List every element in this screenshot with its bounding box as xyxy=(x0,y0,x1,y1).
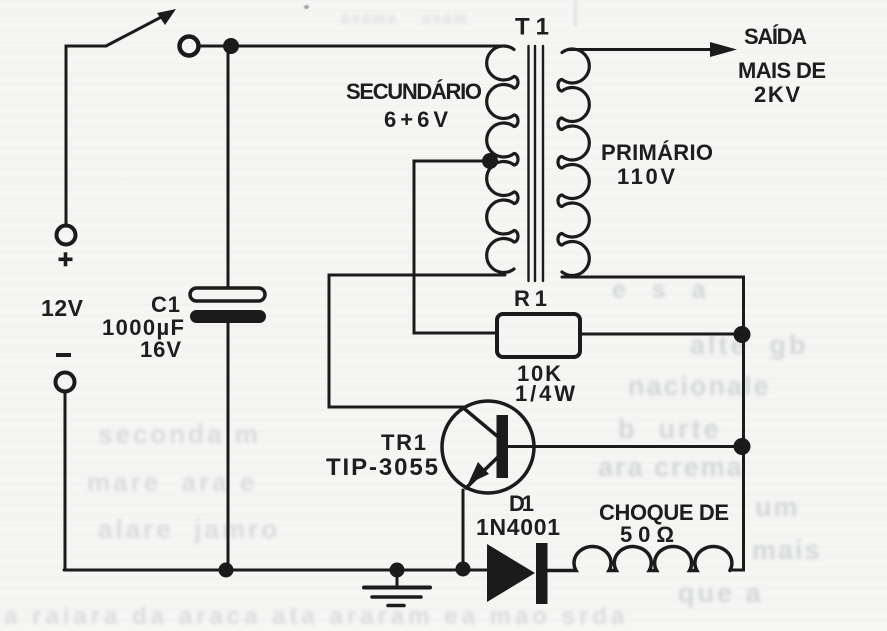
svg-text:1N4001: 1N4001 xyxy=(476,514,561,540)
svg-text:SECUNDÁRIO: SECUNDÁRIO xyxy=(346,79,483,104)
svg-text:SAÍDA: SAÍDA xyxy=(744,24,808,49)
svg-text:TIP-3055: TIP-3055 xyxy=(326,454,439,481)
svg-text:12V: 12V xyxy=(41,295,84,321)
svg-text:6+6V: 6+6V xyxy=(384,107,449,132)
svg-text:50Ω: 50Ω xyxy=(620,522,675,547)
svg-text:R1: R1 xyxy=(514,286,548,311)
svg-text:PRIMÁRIO: PRIMÁRIO xyxy=(601,140,714,165)
svg-text:1/4W: 1/4W xyxy=(515,381,576,406)
svg-text:T1: T1 xyxy=(515,14,550,41)
svg-text:110V: 110V xyxy=(617,164,676,189)
svg-text:16V: 16V xyxy=(140,337,182,362)
svg-text:TR1: TR1 xyxy=(381,430,427,455)
svg-text:2KV: 2KV xyxy=(754,82,801,107)
svg-text:MAIS DE: MAIS DE xyxy=(738,58,827,83)
svg-text:D1: D1 xyxy=(509,491,535,516)
svg-text:C1: C1 xyxy=(151,292,181,317)
